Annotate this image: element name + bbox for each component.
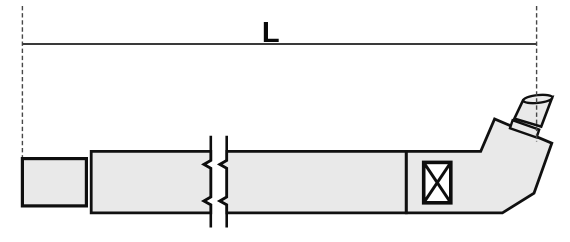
shaft end block: [22, 159, 86, 206]
arm tube left section: [91, 151, 211, 213]
crossed box diagonal 1: [424, 162, 451, 202]
cap opening ellipse: [523, 94, 553, 105]
extension line left (dashed): [21, 6, 23, 157]
dimension line L: [22, 43, 536, 45]
svg-text:L: L: [262, 17, 280, 49]
crossed box diagonal 2: [424, 162, 451, 202]
arm tube right section: [220, 151, 406, 213]
break line left: [204, 136, 211, 228]
junction line: [405, 151, 408, 213]
arm head: [406, 119, 552, 213]
electrode cap neck: [510, 120, 539, 137]
crossed box (clamp symbol): [424, 162, 451, 202]
extension line right (dashed): [536, 6, 538, 142]
electrode cap cone: [514, 97, 552, 127]
break line right: [220, 136, 227, 228]
